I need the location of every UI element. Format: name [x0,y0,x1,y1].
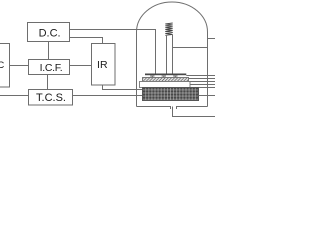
svg-text:IR: IR [97,59,108,71]
quartz strip [140,82,191,88]
susceptor (hatched) [143,78,189,82]
svg-text:D.C.: D.C. [39,27,61,39]
thermocouple lead wire [173,47,208,49]
thermocouple coil [165,23,172,35]
wire recorder to I.C.F. [10,65,29,67]
exhaust pipe [173,107,216,117]
chamber right wall [207,32,209,107]
support pin 2 [162,76,166,78]
susceptor bottom leader [189,81,216,83]
svg-text:C: C [0,60,4,71]
wire IR bottom to heater block [103,85,143,90]
svg-text:T.C.S.: T.C.S. [36,92,66,104]
strip leader [190,84,215,86]
heater block leader [199,95,216,97]
chamber left wall [136,32,138,107]
box D.C. [28,23,70,42]
chamber base left [137,107,171,110]
box T.C.S. [29,90,73,106]
block top leader [199,87,216,89]
chamber base right [177,107,208,110]
box I.C.F. [29,60,70,75]
susceptor top leader [189,78,216,80]
wire D.C. to IR top [70,38,103,44]
thermocouple tube left wall [166,35,168,74]
wire D.C. to I.C.F. [48,42,50,60]
wafer plate [145,74,186,76]
bell jar dome [137,2,208,32]
svg-text:I.C.F.: I.C.F. [40,62,63,74]
wire I.C.F. to IR [70,65,92,67]
wafer leader line [186,75,215,77]
support pin 1 [150,76,154,78]
thermocouple tube right wall [172,35,174,74]
wire T.C.S. to left edge [0,95,29,97]
support pin 3 [173,76,177,78]
recorder box C (cut by left edge) [0,44,10,88]
wire D.C. to wafer electrode [70,30,156,74]
wire I.C.F. to T.C.S. [47,75,49,90]
box IR [92,44,116,86]
wire T.C.S. to heater block [73,95,143,97]
external lead at right [208,38,216,40]
heater block (stippled) [143,88,199,101]
